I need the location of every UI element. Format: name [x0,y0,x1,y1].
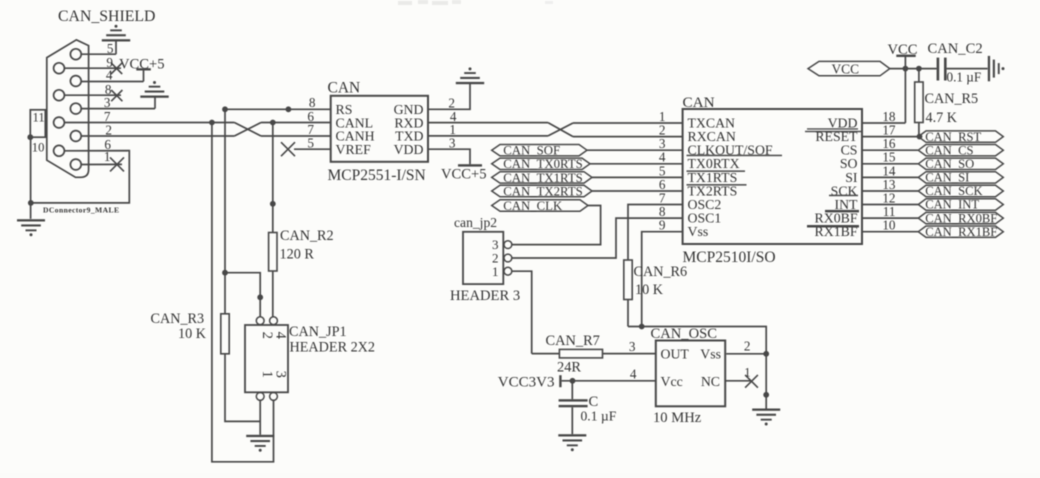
wire C2 to ground [947,68,988,70]
designator C [589,394,599,410]
JP1 pin 3 circle [270,393,278,401]
net label CAN_RST [918,130,1003,144]
resistor R7 CAN_R7 [532,349,656,358]
pin number 18 (U2 right) [882,109,896,124]
label CAN_R3 [151,311,205,327]
wire U1 VDD pin 3 to VCC+5 [428,149,470,164]
active-low bar TX1RTS [687,184,747,186]
wire X1 Vss pin 2 [726,353,766,355]
J2 pin 1 circle [504,267,512,275]
net label CAN_RX0BF [918,211,1003,225]
pin number 7 (J1) [104,109,111,124]
wire crossover CANH/CANL [234,123,261,137]
resistor R6 CAN_R6 [624,260,632,327]
svg-text:3: 3 [629,339,636,354]
svg-text:CAN_C2: CAN_C2 [928,41,983,57]
pin number 1 (JP1) [259,371,275,378]
label CAN_R6 [634,264,688,280]
value 10 MHz (X1) [653,410,702,426]
resistor R3 CAN_R3 [221,273,229,354]
wire J1 pin8 stub [64,94,121,96]
value 10 K (R6) [635,282,664,298]
label CAN_R7 [546,333,600,349]
svg-text:4: 4 [630,367,637,382]
wire CANL net to R2 [272,123,274,233]
power symbol VCC [888,42,918,58]
wire to U2 RXCAN [573,136,683,138]
value 4.7 K (R5) [926,110,958,126]
wire J2 pin3 to CAN_CLK [512,206,601,245]
svg-text:120 R: 120 R [280,246,315,262]
junction VCC stem [903,66,909,72]
svg-text:OUT: OUT [661,347,690,362]
pin number 2 (J2) [492,251,499,266]
connector J1 shield pin 11 box [30,110,45,137]
svg-text:CAN: CAN [328,80,361,97]
junction VCC3V3 / C [570,378,576,384]
svg-text:10 K: 10 K [635,282,664,298]
svg-text:can_jp2: can_jp2 [454,215,497,230]
capacitor C plates [559,381,588,434]
oscillator X1 box [656,341,725,407]
wire U2 CLKOUT/SOF stub [587,149,683,151]
net label CAN_TX2RTS [492,184,592,198]
header JP1 CAN_JP1 box [245,325,288,392]
connector J1 pin 9 circle [54,63,65,74]
net label CAN_CS [918,143,1003,157]
pin number 2 (JP1) [259,332,275,339]
pin number 5 (U1 VREF) [307,135,314,150]
wire J1 pin5 to ground [81,41,116,55]
wire to U2 TXCAN [573,122,683,124]
U1 pin name CANL [336,115,374,130]
svg-text:2: 2 [744,338,751,353]
net label CAN_TX1RTS [492,171,592,185]
wire X1 NC stub [725,380,751,382]
J2 pin 2 circle [504,254,512,262]
wire U2 OSC2 to R6 [628,205,683,261]
svg-text:CAN_SO: CAN_SO [925,157,974,171]
pin number 6 (U1 CANL) [307,109,314,124]
wire U1 TXD pin 1 [428,135,548,137]
svg-text:HEADER 3: HEADER 3 [450,288,520,304]
U2 pin name SO [840,156,858,171]
svg-text:4: 4 [273,332,289,340]
svg-text:10 MHz: 10 MHz [653,410,702,426]
svg-text:5: 5 [107,41,114,56]
pin number 4 (X1 Vcc) [630,367,637,382]
junction RS wire left corner [222,106,228,112]
pin number 3 (J2) [492,237,499,252]
pin number 3 (J1) [104,95,111,110]
pin number 2 (J1) [105,123,112,138]
junction shield wire / frame [28,200,34,206]
svg-text:HEADER 2X2: HEADER 2X2 [290,340,376,356]
label CAN_R5 [925,91,979,107]
connector J1 pin 1 circle [70,159,81,170]
svg-text:Vcc: Vcc [661,374,683,389]
wire crossover to U1 CANL [261,122,331,124]
svg-text:VCC3V3: VCC3V3 [498,374,555,390]
pin number 9 (J1) [106,55,113,70]
svg-text:10 K: 10 K [178,326,207,342]
op-chip U1 designator CAN [328,80,361,97]
pin number 13 (U2 right) [882,177,896,192]
U2 pin name TXCAN [688,115,736,130]
resistor R2 CAN_R2 [269,233,277,317]
wire U2 CS stub to tag [862,149,918,151]
pin number 2 (U2 left) [659,123,666,138]
net label CAN_INT [918,198,1003,212]
pin number 8 (U1 RS) [309,95,316,110]
junction VCC / R5 [916,66,922,72]
svg-text:2: 2 [105,123,112,138]
pin number 1 (J1) [104,149,111,164]
connector J1 DConnector9_MALE shell outline [47,40,89,178]
svg-text:CAN_CLK: CAN_CLK [503,199,563,213]
U1 pin name VDD [394,142,424,157]
U1 pin name RS [336,102,353,117]
J2 pin 3 circle [503,241,512,249]
wire U2 RX0BF stub to tag [862,217,918,219]
value 0.1 uF (C) [581,408,617,423]
U2 pin name RX1BF [815,224,858,239]
wire U2 Vss down [642,232,683,327]
pin number 14 (U2 right) [882,163,896,178]
connector J1 pin 8 circle [54,90,65,101]
svg-text:VCC: VCC [832,62,860,77]
U2 pin name SI [845,170,858,185]
junction R5 / CAN_RST [917,134,923,140]
junction RS / R3 [222,270,228,276]
pin number 11 (U2 right) [883,204,896,219]
svg-text:CAN_SHIELD: CAN_SHIELD [58,8,155,25]
pin number 3 (X1 OUT) [629,339,636,354]
wire VCC stem to U2 VDD [904,57,906,123]
U2 pin name INT [835,197,859,212]
U2 pin name SCK [831,183,858,198]
ground symbol at J1 pin5 [102,25,130,42]
wire J1 pin7 (CANH net) [64,122,234,124]
chip U2 designator CAN [683,94,715,111]
junction Vss vertical [639,324,645,330]
wire J1 pin4 to VCC+5 [81,70,143,82]
wire shield to ground [30,137,32,219]
svg-text:CAN_TX2RTS: CAN_TX2RTS [503,184,583,198]
net label CAN_SOF [492,144,587,158]
capacitor C2 plates [937,58,947,81]
connector J1 pin 4 circle [70,76,81,87]
no-connect X on X1 NC [745,375,758,388]
junction OSC Vss [763,351,769,357]
label CAN_C2 [928,41,983,57]
label HEADER 3 [450,288,520,304]
wire U2 SI stub to tag [862,176,918,178]
wire U2 SCK stub to tag [862,190,918,192]
connector J1 pin 3 circle [70,103,81,114]
svg-text:1: 1 [259,371,275,378]
wire J1 pin9 stub [64,67,121,69]
junction on JP1 pin2 wire [257,294,263,300]
pin number 3 (U1 VDD) [449,135,456,150]
label HEADER 2X2 [290,340,376,356]
connector J1 pin 6 circle [54,145,65,156]
svg-text:CAN_RX1BF: CAN_RX1BF [925,225,997,239]
transceiver U1 MCP2551 box [331,96,428,162]
wire U2 OSC1 to header pin2 [512,218,683,258]
net label CAN_TX0RTS [492,157,590,171]
JP1 pin 2 circle [256,317,264,325]
wire VCC rail [890,68,937,70]
svg-text:3: 3 [104,95,111,110]
U2 pin name RX0BF [815,211,858,226]
svg-text:24R: 24R [557,359,581,375]
junction on R2 wire [270,201,276,207]
power symbol VCC3V3 [498,374,562,390]
ground symbol at U1 GND [456,67,484,84]
header J2 HEADER3 box [463,232,503,284]
svg-text:Vss: Vss [700,347,721,362]
label MCP2551-I/SN [328,167,426,184]
pin number 4 (U2 left) [659,150,666,165]
wire crossover RXD/TXD [548,123,573,137]
label CAN_JP1 [289,324,347,340]
connector J1 pin 7 circle [54,117,65,128]
power symbol VCC+5 at J1 pin4 [119,56,165,72]
JP1 pin 4 circle [270,317,278,325]
pin number 5 (J1) [107,41,114,56]
value 0.1 uF (C2) [947,69,982,84]
svg-text:CAN_JP1: CAN_JP1 [289,324,347,340]
svg-text:10: 10 [32,140,45,154]
pin number 2 (X1 Vss) [744,338,751,353]
active-low bar RESET [805,128,862,132]
pin number 10 (U2 right) [882,218,896,233]
svg-text:CAN_RST: CAN_RST [925,130,981,144]
net label CAN_SI [918,171,1003,185]
junction on pin7 wire to JP1 pin3 loop [209,120,215,126]
active-low bar under CLKOUT/SOF [687,155,783,157]
svg-text:1: 1 [744,365,750,379]
net label VCC hexagon [808,61,890,76]
no-connect X on J1 pin1 [110,157,124,171]
wire U2 INT stub to tag [862,204,918,206]
ground symbol shield [17,219,45,236]
svg-text:CAN_TX1RTS: CAN_TX1RTS [503,171,583,185]
resistor R5 CAN_R5 [915,69,923,137]
label DConnector9_MALE [43,205,119,214]
oscillator X1 designator CAN_OSC [651,326,718,342]
svg-text:CAN_RX0BF: CAN_RX0BF [925,211,997,225]
value 24R (R7) [557,359,581,375]
wire R3 bottom to ground node [225,354,260,422]
svg-text:5: 5 [307,135,314,150]
svg-text:CAN_R3: CAN_R3 [151,311,205,327]
svg-text:MCP2551-I/SN: MCP2551-I/SN [328,167,426,184]
ground symbol below C [558,434,586,451]
header J2 designator can_jp2 [454,215,497,230]
pin number 10 (J1) [32,140,45,154]
wire U2 TX1RTS stub [592,176,683,178]
pin number 6 (J1) [104,137,111,152]
svg-text:CAN_TX0RTS: CAN_TX0RTS [503,157,583,171]
pin number 8 (J1) [105,82,112,97]
wire U2 SO stub to tag [862,163,918,165]
junction shield pin box corner [27,134,33,140]
svg-text:VCC+5: VCC+5 [441,166,487,182]
JP1 pin 1 circle [256,393,264,401]
svg-text:VCC+5: VCC+5 [119,56,165,72]
wire RS net down to JP1 pin2 [225,109,260,316]
wire crossover to U1 CANH [261,135,331,137]
pin number 3 (U2 left) [659,136,666,151]
junction on RS wire [286,106,292,112]
net label CAN_SCK [918,184,1003,198]
pin number 4 (U1 RXD) [450,109,457,124]
wire J1 pin3 to ground [81,97,155,109]
pin number 5 (U2 left) [659,163,666,178]
pin number 1 (J2) [492,264,499,279]
pin number 7 (U2 left) [659,190,666,205]
pin number 16 (U2 right) [882,136,896,151]
svg-text:3: 3 [273,371,289,378]
wire VCC3V3 to X1 Vcc [562,380,656,382]
svg-text:CAN_R7: CAN_R7 [546,333,600,349]
active-low bar TX0RTX [687,170,746,172]
U2 pin name OSC1 [688,211,722,226]
net label CAN_RX1BF [918,225,1003,239]
wire U2 TX2RTS stub [592,190,683,192]
U2 pin name TX2RTS [688,183,738,198]
svg-text:4.7 K: 4.7 K [926,110,958,126]
label CAN_R2 [280,228,334,244]
connector J1 pin 5 circle [70,49,81,60]
svg-text:MCP2510I/SO: MCP2510I/SO [683,249,776,266]
active-low bar SCK [829,195,858,197]
svg-text:DConnector9_MALE: DConnector9_MALE [43,205,119,214]
U2 pin name Vss [688,224,709,239]
svg-text:CAN_SOF: CAN_SOF [503,144,560,158]
svg-text:VREF: VREF [336,142,372,157]
wire U2 RESET stub to tag [862,136,918,138]
U1 pin name RXD [394,115,423,130]
svg-text:2: 2 [259,332,275,339]
svg-text:CAN_CS: CAN_CS [925,143,973,157]
pin number 4 (JP1) [273,332,289,340]
svg-text:CAN_R2: CAN_R2 [280,228,334,244]
U2 pin name VDD [828,115,858,130]
U2 pin name TX0RTX [688,156,740,171]
svg-text:11: 11 [33,110,45,124]
pin number 4 (J1) [106,68,113,83]
pin number 7 (U1 CANH) [307,122,314,137]
value 10 K (R3) [178,326,207,342]
X1 pin name Vcc [661,374,683,389]
U2 pin name RXCAN [688,129,736,144]
pin number 2 (U1 GND) [448,95,455,110]
pin number 12 (U2 right) [882,190,895,205]
value 120 R (R2) [280,246,315,262]
svg-text:CAN_R5: CAN_R5 [925,91,979,107]
U2 pin name OSC2 [688,197,722,212]
svg-text:10: 10 [882,218,896,233]
wire JP1 pin1 to ground [259,400,261,435]
wire U1 VREF stub [294,148,331,150]
power symbol VCC+5 at U1 VDD [441,164,487,182]
svg-text:0.1 µF: 0.1 µF [581,408,617,423]
junction on ground drop [763,392,769,398]
wire Vss net bottom [628,327,766,409]
svg-text:3: 3 [449,135,456,150]
svg-text:VDD: VDD [394,142,424,157]
svg-text:CAN_INT: CAN_INT [925,198,979,212]
wire J2 pin1 to R7 [512,271,532,353]
svg-text:NC: NC [701,374,720,389]
U2 pin name TX1RTS [688,170,738,185]
pin number 1 (U1 TXD) [449,122,456,137]
wire U2 TX0RTX stub [590,163,683,165]
svg-text:Vss: Vss [688,224,709,239]
pin number 17 (U2 right) [882,123,896,138]
svg-text:0.1 µF: 0.1 µF [947,69,982,84]
pin number 11 (J1) [33,110,45,124]
scan artifact smudge [398,0,553,5]
U1 pin name CANH [336,129,375,144]
U2 pin name RESET [815,129,858,144]
active-low bar INT/RX0BF [825,210,859,213]
X1 pin name OUT [661,347,690,362]
junction CANL net / R2 [270,120,276,126]
controller U2 MCP2510 box [683,109,862,244]
pin number 1 (U2 left) [659,109,666,124]
wire U2 RX1BF stub to tag [862,231,918,233]
wire U1 RS pin 8 [225,108,331,110]
net label CAN_CLK [492,199,588,213]
X1 pin name NC [701,374,720,389]
wire J1 pin1 stub [81,163,122,165]
no-connect X on J1 pin9 [111,63,122,74]
svg-text:4: 4 [106,68,113,83]
ground symbol at J1 pin3 [140,81,168,98]
active-low bar RX0BF/RX1BF [807,225,859,228]
U2 pin name CLKOUT/SOF [688,143,773,158]
svg-text:CAN_R6: CAN_R6 [634,264,688,280]
pin number 3 (JP1) [273,371,289,378]
pin number 9 (U2 left) [659,218,666,233]
wire J1 pin6 to shield frame [31,151,129,203]
svg-text:CAN_SI: CAN_SI [925,171,969,185]
wire U2 VDD pin 18 to VCC [862,122,905,124]
label MCP2510I/SO [683,249,776,266]
no-connect X on J1 pin8 [111,90,122,101]
pin number 6 (U2 left) [659,177,666,192]
U2 pin name CS [841,143,858,158]
connector J1 pin 2 circle [70,131,81,142]
wire J1 pin2 (CANL net) [81,135,234,137]
pin number 1 (X1 NC) [744,365,750,379]
pin number 8 (U2 left) [659,204,666,219]
svg-text:1: 1 [104,149,111,164]
connector J1 CAN_SHIELD name label [58,8,155,25]
U1 pin name TXD [395,129,423,144]
ground symbol below JP1 [246,435,274,452]
wire U1 GND pin 2 to ground [428,84,470,109]
U1 pin name GND [394,102,424,117]
svg-text:9: 9 [659,218,666,233]
wire U1 RXD pin 4 [428,122,548,124]
net label CAN_SO [918,157,1003,171]
svg-text:1: 1 [492,264,499,279]
